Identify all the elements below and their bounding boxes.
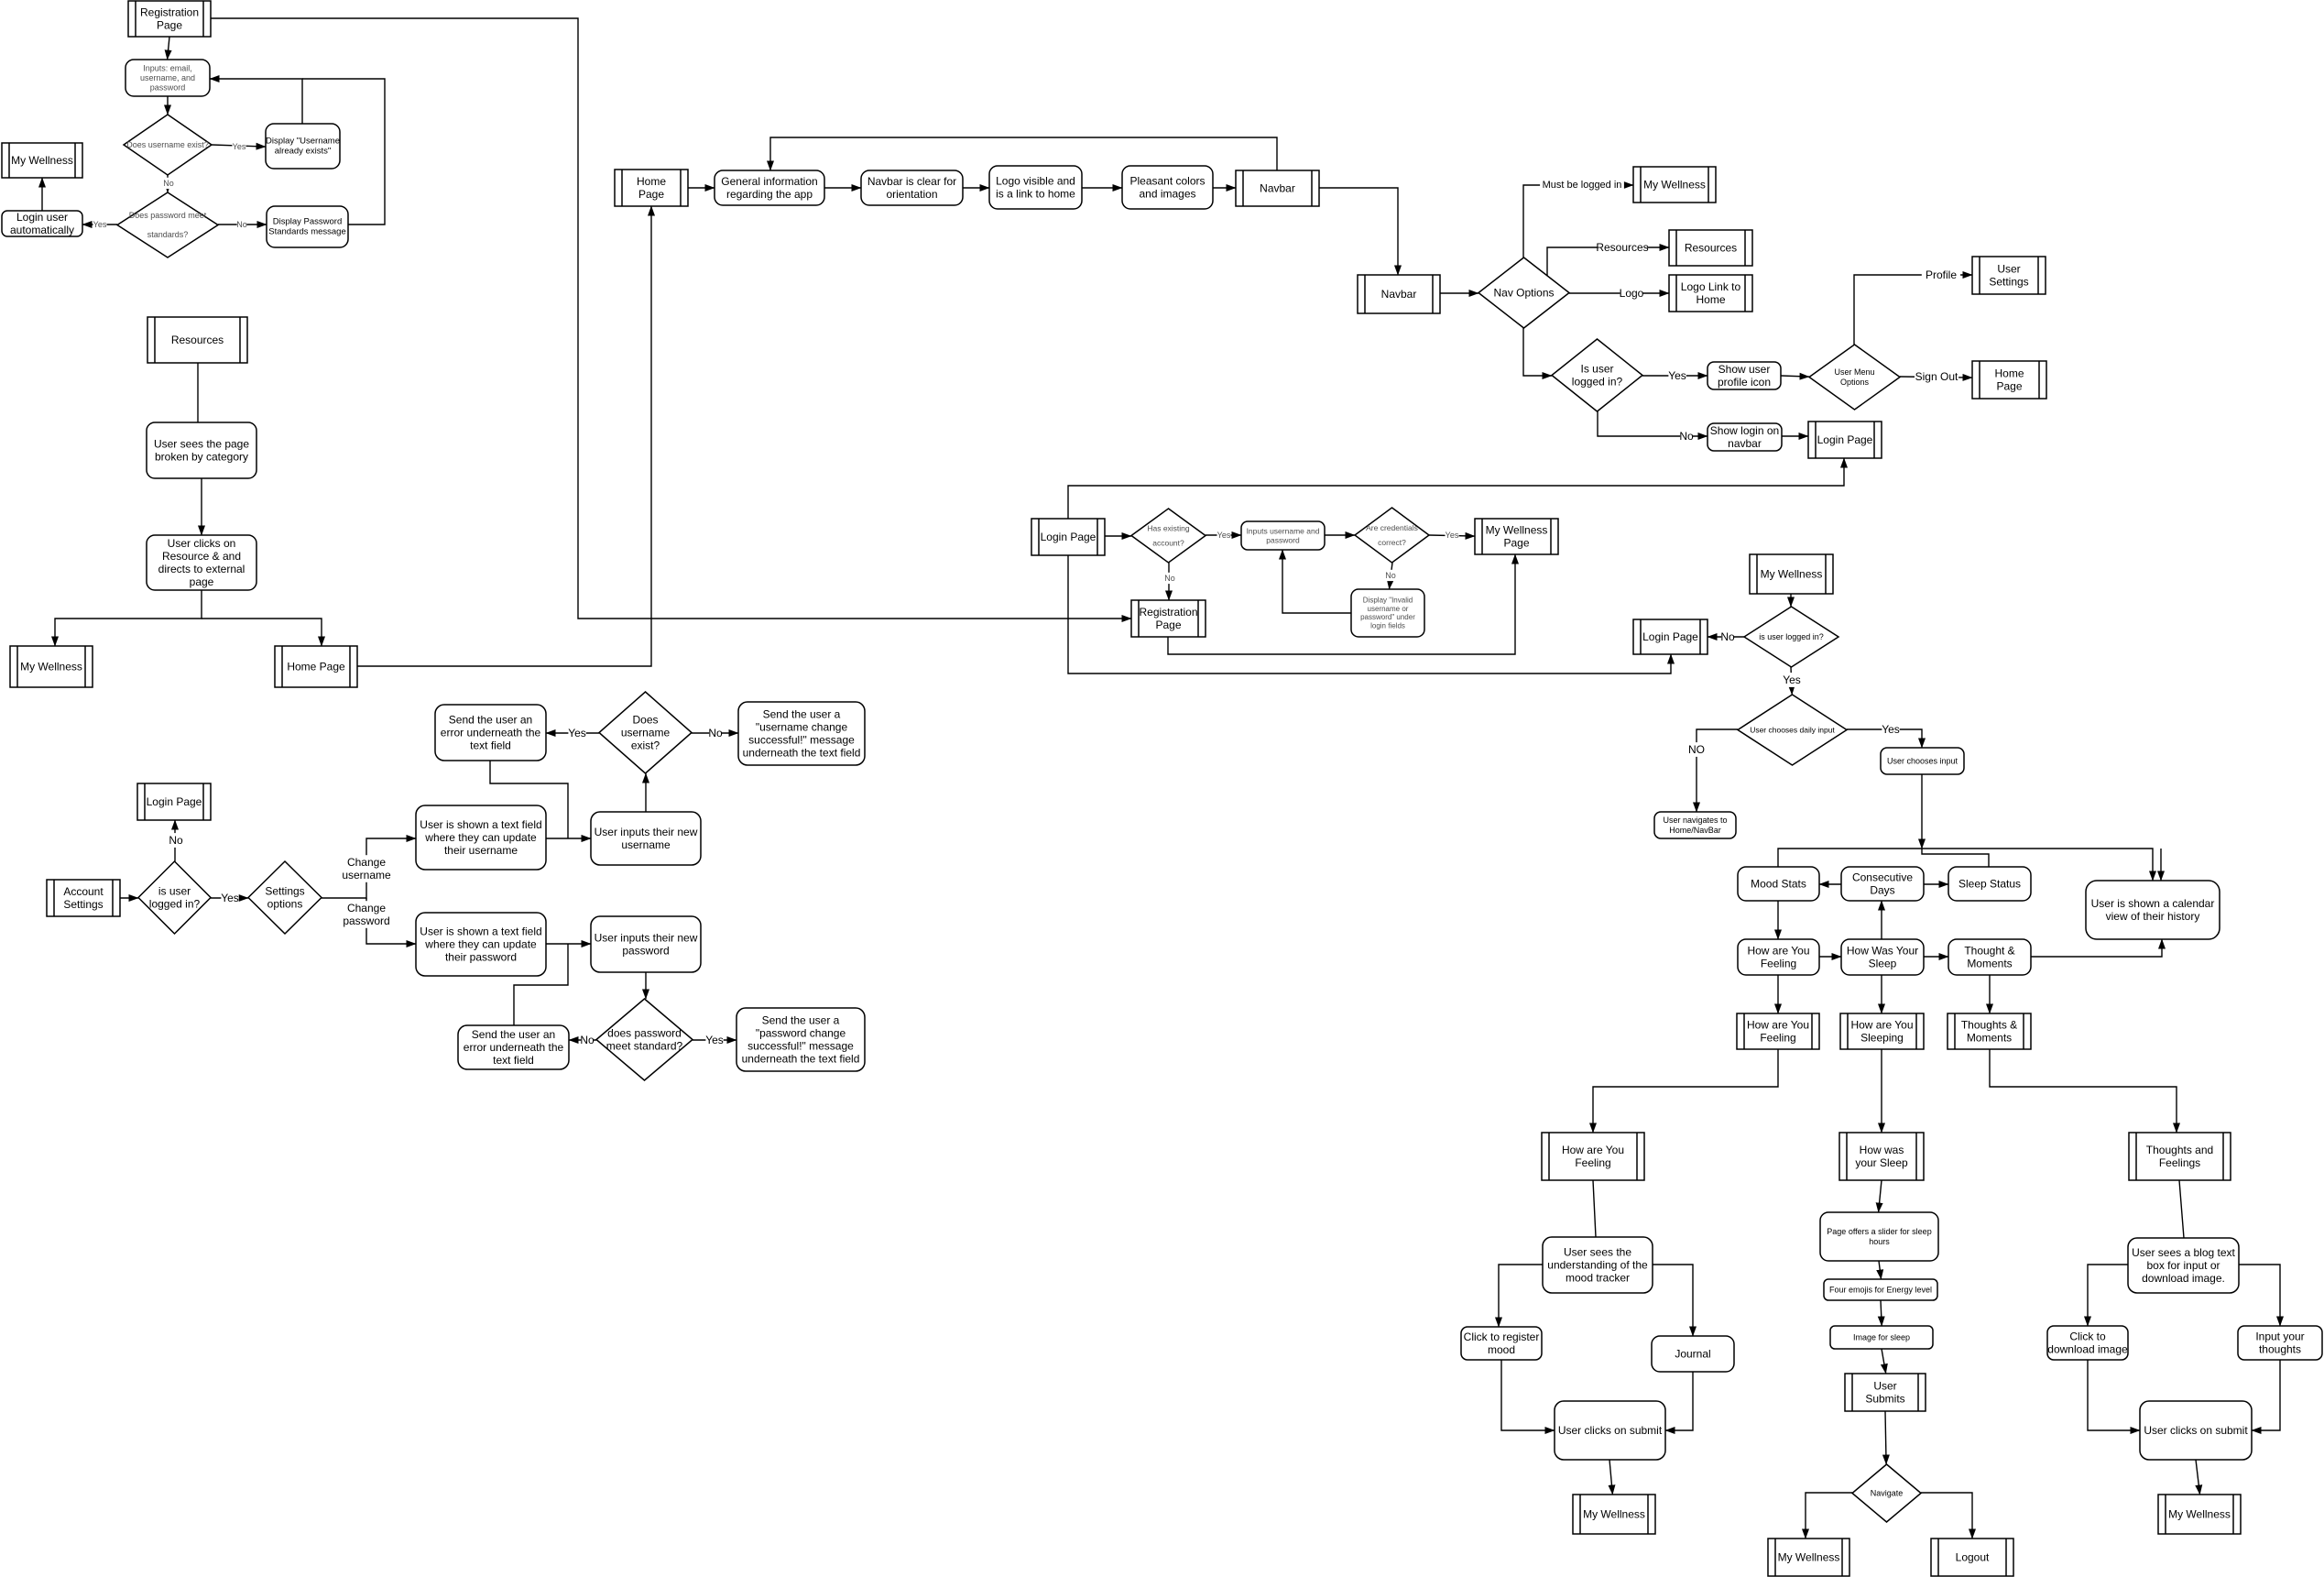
box Mood Stats bbox=[1738, 867, 1819, 901]
box How are You Feeling L1 bbox=[1738, 939, 1819, 975]
wire How Was Your Sleep L1 to How are You Sleeping L2 bbox=[1881, 975, 1882, 1013]
wire Nav Options to Is user logged in bbox=[1523, 328, 1552, 376]
svg-text:Display Password: Display Password bbox=[273, 216, 343, 226]
box Display Username already exists bbox=[266, 124, 340, 169]
svg-text:logged in?: logged in? bbox=[1572, 376, 1623, 389]
wire Thought & Moments L1 to calendar bbox=[2031, 939, 2162, 957]
wire User sees the page to User clicks on Resource bbox=[201, 478, 202, 535]
svg-text:exist?: exist? bbox=[631, 739, 660, 752]
svg-text:How was: How was bbox=[1860, 1144, 1904, 1156]
wire Thoughts & Moments L2 to Thoughts and Feelings L3 bbox=[1990, 1049, 2177, 1133]
svg-text:Sleep: Sleep bbox=[1869, 958, 1897, 970]
svg-text:where they can update: where they can update bbox=[424, 938, 537, 951]
wire junction to Sleep Status bbox=[1922, 849, 1989, 867]
svg-text:password: password bbox=[150, 83, 186, 93]
svg-text:Home: Home bbox=[637, 175, 666, 188]
label Logo bbox=[1620, 286, 1644, 301]
svg-text:Yes: Yes bbox=[1446, 531, 1459, 540]
svg-text:your Sleep: your Sleep bbox=[1855, 1156, 1908, 1169]
svg-text:username: username bbox=[621, 727, 671, 739]
box Send the user an error underneath the text field (username) bbox=[435, 705, 546, 761]
wire User inputs new password to does password meet standard bbox=[645, 972, 647, 999]
box Send the user an error underneath the text field (password) bbox=[458, 1025, 569, 1069]
svg-text:No: No bbox=[1679, 430, 1694, 443]
wire Show login on navbar to Login Page bbox=[1782, 435, 1808, 437]
svg-text:Standards message: Standards message bbox=[268, 227, 346, 237]
label Yes bbox=[1217, 530, 1231, 541]
svg-text:error underneath the: error underneath the bbox=[464, 1041, 564, 1054]
wire User clicks split right to Home Page bbox=[202, 619, 322, 646]
svg-text:account?: account? bbox=[1152, 539, 1184, 548]
svg-text:Show user: Show user bbox=[1718, 363, 1771, 376]
wire Input your thoughts to User clicks on submit blog bbox=[2252, 1360, 2280, 1430]
wire Thoughts and Feelings L3 to User sees a blog bbox=[2179, 1180, 2184, 1238]
svg-text:navbar: navbar bbox=[1728, 437, 1762, 450]
wire My Wellness to is user logged in wellness bbox=[1790, 594, 1792, 607]
svg-text:Home: Home bbox=[1994, 367, 2024, 379]
wire Is user logged in Yes to Show user profile icon bbox=[1642, 375, 1708, 377]
svg-text:standards?: standards? bbox=[147, 230, 189, 239]
svg-text:Page: Page bbox=[1996, 380, 2022, 393]
label Yes bbox=[93, 219, 107, 230]
wire Show user profile icon to User Menu Options bbox=[1781, 376, 1809, 377]
svg-text:Yes: Yes bbox=[705, 1034, 724, 1046]
box My Wellness (wellness top) bbox=[1750, 554, 1833, 594]
box Sleep Status bbox=[1948, 867, 2031, 901]
label Change password bbox=[343, 901, 389, 928]
box User clicks on submit (mood) bbox=[1555, 1401, 1665, 1460]
wire Nav Options to My Wellness must be logged in bbox=[1523, 185, 1633, 257]
svg-text:Settings: Settings bbox=[265, 884, 304, 897]
wire Inputs to Does username exist bbox=[167, 96, 169, 115]
svg-text:General information: General information bbox=[721, 175, 817, 188]
svg-text:Registration: Registration bbox=[140, 5, 199, 18]
wire How Was Your Sleep L1 to Consecutive Days bbox=[1881, 901, 1882, 939]
box How are You Sleeping L2 bbox=[1840, 1013, 1924, 1049]
svg-text:No: No bbox=[169, 834, 183, 847]
svg-text:password: password bbox=[622, 945, 669, 958]
wire Does password meet standards No to Display Password Standards message bbox=[218, 224, 267, 225]
wire Pleasant colors to Navbar bbox=[1213, 187, 1236, 189]
svg-text:Logout: Logout bbox=[1956, 1551, 1990, 1564]
wire How are You Sleeping L2 to How was your Sleep L3 bbox=[1881, 1049, 1882, 1133]
svg-text:thoughts: thoughts bbox=[2259, 1343, 2301, 1356]
svg-text:Resources: Resources bbox=[1596, 241, 1648, 254]
wire Consecutive Days to Mood Stats bbox=[1819, 883, 1841, 885]
wire User is shown password to User inputs new password bbox=[546, 943, 591, 945]
decision Is user logged in? bbox=[1552, 339, 1642, 411]
wire How are You Feeling L1 to How Was Your Sleep L1 bbox=[1819, 956, 1841, 958]
decision Nav Options bbox=[1478, 257, 1569, 328]
svg-text:Is user: Is user bbox=[1580, 362, 1613, 375]
wire Logo visible to Pleasant colors bbox=[1082, 187, 1122, 189]
svg-text:My Wellness: My Wellness bbox=[1643, 179, 1706, 192]
svg-text:No: No bbox=[1164, 574, 1175, 583]
svg-text:their password: their password bbox=[445, 951, 517, 964]
svg-text:Thoughts and: Thoughts and bbox=[2146, 1144, 2213, 1156]
svg-text:"username change: "username change bbox=[756, 720, 848, 733]
svg-text:Feelings: Feelings bbox=[2159, 1156, 2200, 1169]
svg-text:Send the user an: Send the user an bbox=[449, 713, 532, 726]
box User sees the page broken by category bbox=[147, 422, 256, 478]
decision Does username exist? (settings) bbox=[599, 692, 692, 773]
wire Image for sleep to User Submits bbox=[1882, 1349, 1886, 1374]
box User inputs their new password bbox=[591, 916, 701, 972]
box My Wellness (registration) bbox=[2, 143, 82, 178]
svg-text:Home: Home bbox=[1696, 293, 1725, 306]
svg-text:My Wellness: My Wellness bbox=[1486, 523, 1548, 536]
svg-text:Login Page: Login Page bbox=[1817, 433, 1873, 446]
svg-text:Display "Username: Display "Username bbox=[266, 136, 340, 146]
box Registration Page 2 bbox=[1131, 600, 1206, 637]
wire Login Page bottom to Login Page cluster bbox=[1068, 555, 1671, 674]
svg-text:Logo: Logo bbox=[1620, 287, 1644, 300]
svg-text:their username: their username bbox=[444, 844, 518, 857]
decision does password meet standard? bbox=[596, 999, 693, 1080]
svg-text:Yes: Yes bbox=[1217, 531, 1231, 540]
wire User clicks on submit to My Wellness mood bbox=[1609, 1460, 1612, 1495]
wire Registration Page to Registration Page 2 bbox=[211, 18, 1131, 619]
label Yes bbox=[1882, 722, 1900, 737]
svg-text:Resource & and: Resource & and bbox=[162, 550, 241, 563]
box Journal bbox=[1652, 1336, 1734, 1372]
label Sign Out bbox=[1915, 369, 1958, 384]
wire Does username exist Yes to Display Username already exists bbox=[212, 145, 266, 147]
svg-text:Login Page: Login Page bbox=[1041, 531, 1097, 543]
svg-text:Input your: Input your bbox=[2255, 1330, 2304, 1342]
decision Does username exist? bbox=[124, 115, 212, 175]
svg-text:No: No bbox=[236, 220, 247, 229]
svg-text:My Wellness: My Wellness bbox=[1761, 568, 1823, 581]
svg-text:User sees the page: User sees the page bbox=[154, 437, 249, 450]
svg-text:Days: Days bbox=[1870, 884, 1894, 897]
label Yes bbox=[568, 726, 586, 740]
box Thought & Moments L1 bbox=[1948, 939, 2031, 975]
decision is user logged in? (settings) bbox=[138, 861, 211, 934]
svg-text:User clicks on submit: User clicks on submit bbox=[1558, 1424, 1663, 1437]
svg-text:understanding of the: understanding of the bbox=[1547, 1259, 1648, 1272]
svg-text:Navbar is clear for: Navbar is clear for bbox=[867, 175, 956, 188]
svg-text:Must be logged in: Must be logged in bbox=[1543, 180, 1622, 191]
wire Registration Page to Inputs bbox=[168, 37, 169, 60]
svg-text:mood tracker: mood tracker bbox=[1566, 1272, 1630, 1285]
svg-text:Account: Account bbox=[63, 885, 104, 898]
svg-text:Show login on: Show login on bbox=[1710, 424, 1779, 437]
box My Wellness Page bbox=[1475, 519, 1558, 554]
svg-text:Change: Change bbox=[347, 902, 386, 914]
svg-text:Send the user a: Send the user a bbox=[762, 1013, 840, 1026]
svg-text:username: username bbox=[342, 869, 391, 882]
wire Does password meet standards Yes to Login user automatically bbox=[82, 224, 117, 225]
box Input your thoughts bbox=[2238, 1326, 2322, 1360]
box Consecutive Days bbox=[1841, 867, 1924, 901]
box Logo Link to Home bbox=[1669, 275, 1752, 312]
svg-text:successful!" message: successful!" message bbox=[747, 1040, 854, 1053]
box How are You Feeling L3 bbox=[1542, 1133, 1644, 1180]
box Navbar 2 bbox=[1358, 275, 1440, 313]
wire Navbar feedback to General information bbox=[770, 137, 1277, 170]
box Home Page (resources) bbox=[275, 646, 357, 687]
wire How Was Your Sleep L1 to Thought & Moments L1 bbox=[1924, 956, 1948, 958]
wire junction to Mood Stats bbox=[1778, 849, 1922, 867]
svg-text:Image for sleep: Image for sleep bbox=[1853, 1333, 1910, 1342]
svg-text:How are You: How are You bbox=[1747, 944, 1809, 957]
wire Display Invalid feedback to Inputs username and password bbox=[1282, 550, 1351, 613]
wire is user logged in No to Login Page wellness bbox=[1708, 636, 1744, 638]
box Send the user a password change successful message bbox=[736, 1008, 865, 1071]
wire User sees the understanding to Journal bbox=[1653, 1265, 1693, 1336]
box Logo visible and is a link to home bbox=[989, 166, 1082, 209]
label No bbox=[1679, 429, 1694, 444]
svg-text:box for input or: box for input or bbox=[2146, 1259, 2220, 1272]
box Page offers a slider for sleep hours bbox=[1820, 1212, 1938, 1261]
svg-text:text field: text field bbox=[493, 1054, 534, 1067]
svg-text:password: password bbox=[343, 914, 389, 927]
wire General information to Navbar is clear bbox=[824, 187, 861, 189]
box Login Page (settings) bbox=[137, 783, 211, 820]
box User is shown a text field update username bbox=[416, 805, 546, 870]
decision Has existing account? bbox=[1131, 509, 1206, 563]
box Logout bbox=[1931, 1539, 2013, 1576]
svg-text:username, and: username, and bbox=[140, 73, 195, 82]
label Yes bbox=[1446, 530, 1459, 541]
label No bbox=[1720, 630, 1735, 644]
box Image for sleep bbox=[1830, 1326, 1933, 1349]
box Display Invalid username or password under login fields bbox=[1351, 589, 1424, 637]
box Resources (nav) bbox=[1669, 230, 1752, 266]
box User inputs their new username bbox=[591, 812, 701, 865]
svg-text:username: username bbox=[621, 838, 671, 851]
wire User chooses daily input NO to User navigates bbox=[1697, 729, 1738, 812]
label No bbox=[708, 726, 723, 740]
svg-text:Yes: Yes bbox=[1882, 723, 1900, 736]
svg-text:Settings: Settings bbox=[63, 898, 103, 911]
svg-text:Home/NavBar: Home/NavBar bbox=[1669, 826, 1721, 835]
box Thoughts & Moments L2 bbox=[1948, 1013, 2031, 1049]
label No bbox=[163, 178, 174, 189]
box My Wellness (blog) bbox=[2158, 1495, 2241, 1534]
wire Nav Options to Logo Link to Home bbox=[1569, 292, 1669, 294]
box User Settings bbox=[1972, 257, 2046, 294]
svg-text:Navbar: Navbar bbox=[1260, 182, 1295, 195]
svg-text:Resources: Resources bbox=[171, 334, 224, 346]
box Account Settings bbox=[47, 880, 120, 916]
wire does password meet standard No to Send error 2 bbox=[569, 1039, 596, 1041]
svg-text:Yes: Yes bbox=[93, 220, 107, 229]
box User sees a blog text box for input or download image bbox=[2128, 1238, 2239, 1293]
wire Click to download image to User clicks on submit blog bbox=[2088, 1360, 2140, 1430]
wire is user logged in Yes to User chooses daily input bbox=[1791, 667, 1792, 695]
wire Thought & Moments L1 to Thoughts & Moments L2 bbox=[1989, 975, 1991, 1013]
box Four emojis for Energy level bbox=[1824, 1279, 1937, 1300]
box Send the user a username change successful message bbox=[738, 702, 865, 765]
box Login user automatically bbox=[2, 211, 82, 236]
svg-text:User: User bbox=[1997, 262, 2020, 275]
svg-text:Submits: Submits bbox=[1865, 1393, 1904, 1406]
wire Are credentials correct Yes to My Wellness Page bbox=[1429, 535, 1475, 536]
box Inputs username and password bbox=[1241, 521, 1325, 550]
svg-text:Login Page: Login Page bbox=[1642, 630, 1698, 643]
svg-text:Journal: Journal bbox=[1675, 1348, 1710, 1361]
wire How are You Feeling L1 to L2 bbox=[1777, 975, 1779, 1013]
svg-text:already exists": already exists" bbox=[275, 147, 331, 157]
svg-text:download image.: download image. bbox=[2142, 1272, 2225, 1285]
svg-text:No: No bbox=[1385, 571, 1396, 580]
svg-text:is user logged in?: is user logged in? bbox=[1759, 632, 1824, 641]
wire Display Username already exists feedback to Inputs bbox=[210, 79, 302, 124]
svg-text:page: page bbox=[190, 575, 214, 588]
box User sees the understanding of the mood tracker bbox=[1543, 1237, 1653, 1293]
wire Does username exist No to Does password meet standards bbox=[167, 175, 169, 192]
svg-text:User: User bbox=[1873, 1379, 1896, 1392]
box My Wellness (mood) bbox=[1573, 1495, 1655, 1534]
wire Inputs username and password to Are credentials correct bbox=[1325, 534, 1355, 536]
svg-text:is user: is user bbox=[158, 884, 191, 897]
decision Settings options bbox=[248, 861, 322, 934]
svg-text:Send the user a: Send the user a bbox=[763, 707, 841, 720]
wire is user logged in No to Login Page bbox=[174, 820, 176, 861]
wire junction to calendar 1 bbox=[1922, 849, 2153, 881]
svg-text:Yes: Yes bbox=[233, 142, 246, 151]
svg-text:Inputs: email,: Inputs: email, bbox=[143, 63, 192, 72]
svg-text:Does username exist?: Does username exist? bbox=[126, 140, 209, 149]
svg-text:Page: Page bbox=[1503, 537, 1529, 550]
box Show user profile icon bbox=[1708, 362, 1781, 389]
label No bbox=[1164, 573, 1175, 584]
box Display Password Standards message bbox=[267, 206, 348, 247]
label Change username bbox=[342, 855, 391, 882]
label NO bbox=[1688, 742, 1705, 757]
svg-text:Resources: Resources bbox=[1685, 242, 1737, 255]
box My Wellness (navigate) bbox=[1768, 1539, 1849, 1576]
svg-text:Send the user an: Send the user an bbox=[472, 1028, 555, 1041]
box Home Page (top) bbox=[615, 170, 688, 206]
svg-text:Yes: Yes bbox=[1668, 369, 1686, 382]
wire Navbar to Navbar 2 bbox=[1319, 188, 1398, 275]
label Resources bbox=[1596, 240, 1648, 255]
wire Settings options to change username bbox=[322, 838, 416, 898]
svg-text:Inputs username and: Inputs username and bbox=[1247, 527, 1320, 536]
svg-text:password" under: password" under bbox=[1360, 613, 1415, 621]
wire How was your Sleep L3 to Page offers a slider bbox=[1879, 1180, 1882, 1212]
svg-text:Four emojis for Energy level: Four emojis for Energy level bbox=[1829, 1286, 1932, 1295]
svg-text:Consecutive: Consecutive bbox=[1852, 871, 1913, 883]
svg-text:User sees a blog text: User sees a blog text bbox=[2132, 1246, 2235, 1259]
svg-text:No: No bbox=[1720, 630, 1735, 643]
svg-text:Login user: Login user bbox=[16, 211, 68, 224]
svg-text:Navigate: Navigate bbox=[1871, 1489, 1904, 1498]
svg-text:Moments: Moments bbox=[1967, 958, 2012, 970]
svg-text:No: No bbox=[163, 179, 174, 188]
svg-text:Page: Page bbox=[157, 19, 182, 32]
svg-text:Yes: Yes bbox=[568, 727, 586, 739]
svg-text:text field: text field bbox=[470, 739, 511, 752]
box Pleasant colors and images bbox=[1122, 166, 1213, 209]
decision Does password meet standards? bbox=[117, 192, 218, 257]
wire Nav Options to Resources bbox=[1547, 247, 1669, 276]
wire User Submits to Navigate bbox=[1885, 1411, 1886, 1464]
svg-text:How are You: How are You bbox=[1850, 1018, 1913, 1031]
box How was your Sleep L3 bbox=[1839, 1133, 1924, 1180]
svg-text:User is shown a calendar: User is shown a calendar bbox=[2091, 897, 2215, 910]
svg-text:My Wellness: My Wellness bbox=[11, 154, 73, 167]
svg-text:Sleeping: Sleeping bbox=[1860, 1032, 1904, 1045]
svg-text:Moments: Moments bbox=[1967, 1032, 2012, 1045]
label No bbox=[580, 1033, 595, 1047]
svg-text:options: options bbox=[267, 898, 303, 911]
wire Page offers a slider to Four emojis bbox=[1879, 1261, 1882, 1279]
label Profile bbox=[1922, 268, 1960, 282]
wire Account Settings to is user logged in bbox=[120, 897, 138, 899]
svg-text:where they can update: where they can update bbox=[424, 831, 537, 844]
wire is user logged in Yes to Settings options bbox=[211, 897, 248, 899]
wire Resources to User sees the page bbox=[197, 363, 199, 422]
label No bbox=[1385, 570, 1396, 581]
svg-text:mood: mood bbox=[1488, 1343, 1515, 1356]
svg-text:correct?: correct? bbox=[1378, 538, 1406, 547]
svg-text:Does password meet: Does password meet bbox=[129, 211, 207, 220]
wire User sees a blog to Click to download image bbox=[2088, 1265, 2128, 1326]
box Login Page (login flow) bbox=[1031, 519, 1105, 555]
box User navigates to Home/NavBar bbox=[1654, 812, 1736, 838]
svg-text:NO: NO bbox=[1688, 743, 1705, 756]
wire Journal to User clicks on submit bbox=[1665, 1372, 1693, 1430]
svg-text:Sign Out: Sign Out bbox=[1915, 370, 1958, 383]
wire Login Page top to Login Page nav bbox=[1068, 458, 1844, 519]
wire User clicks split left to My Wellness bbox=[55, 590, 202, 646]
svg-text:Mood Stats: Mood Stats bbox=[1751, 878, 1806, 891]
box General information regarding the app bbox=[715, 170, 824, 205]
svg-text:User clicks on submit: User clicks on submit bbox=[2144, 1424, 2248, 1437]
svg-text:"password change: "password change bbox=[756, 1026, 846, 1039]
wire User Menu Options Profile to User Settings bbox=[1854, 275, 1972, 345]
box My Wellness (resources) bbox=[10, 646, 93, 687]
svg-text:User chooses daily input: User chooses daily input bbox=[1750, 726, 1835, 735]
decision Are credentials correct? bbox=[1355, 508, 1429, 563]
label No bbox=[169, 833, 183, 848]
wire Login user automatically to My Wellness bbox=[41, 178, 43, 211]
svg-text:Nav Options: Nav Options bbox=[1493, 287, 1554, 300]
wire User Menu Options Sign Out to Home Page bbox=[1900, 377, 1972, 378]
svg-text:Yes: Yes bbox=[221, 892, 239, 904]
svg-text:Logo Link to: Logo Link to bbox=[1681, 280, 1741, 293]
box User Submits bbox=[1845, 1374, 1926, 1411]
box How Was Your Sleep L1 bbox=[1841, 939, 1924, 975]
box User clicks on submit (blog) bbox=[2140, 1401, 2252, 1460]
svg-text:logged in?: logged in? bbox=[149, 898, 201, 911]
wire junction to calendar 2 bbox=[2160, 849, 2162, 881]
svg-text:Are credentials: Are credentials bbox=[1366, 523, 1418, 532]
label No bbox=[236, 219, 247, 230]
wire Consecutive Days to Sleep Status bbox=[1924, 883, 1948, 885]
svg-text:Click to: Click to bbox=[2069, 1330, 2106, 1342]
svg-text:Navbar: Navbar bbox=[1381, 288, 1417, 301]
decision is user logged in? (wellness) bbox=[1744, 607, 1838, 667]
wire Does username exist No to username change successful bbox=[692, 732, 738, 734]
wire Navbar 2 to Nav Options bbox=[1440, 292, 1478, 294]
box Registration Page bbox=[128, 1, 211, 37]
wire Has existing account No to Registration Page 2 bbox=[1168, 563, 1170, 600]
svg-text:hours: hours bbox=[1869, 1237, 1890, 1246]
svg-text:Registration: Registration bbox=[1139, 606, 1197, 619]
svg-text:meet standard?: meet standard? bbox=[606, 1040, 683, 1053]
wire Has existing account Yes to Inputs username and password bbox=[1206, 534, 1241, 536]
svg-text:How Was Your: How Was Your bbox=[1847, 944, 1918, 957]
wire User sees the understanding to Click to register mood bbox=[1499, 1265, 1543, 1327]
wire Home Page 2 to Home Page top bbox=[357, 206, 651, 666]
svg-text:underneath the text field: underneath the text field bbox=[743, 747, 861, 760]
svg-text:Logo visible and: Logo visible and bbox=[996, 174, 1075, 187]
